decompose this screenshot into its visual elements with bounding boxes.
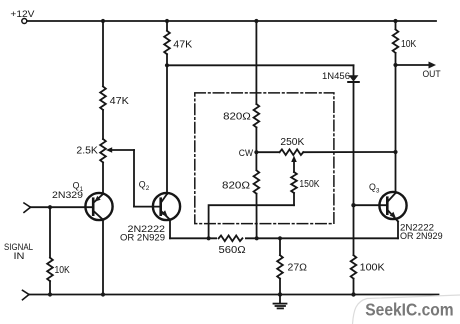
node junction rail-820 chain <box>254 19 258 23</box>
wire Q2 emitter down <box>169 220 171 239</box>
svg-text:27Ω: 27Ω <box>288 263 308 274</box>
watermark swoosh <box>353 295 460 324</box>
wire node down to Q3 collector <box>395 152 397 193</box>
resistor R2 10K <box>47 258 70 281</box>
label SIGNAL IN <box>4 242 33 261</box>
svg-text:Q: Q <box>73 180 80 190</box>
wire R10 to ground rail <box>279 279 281 295</box>
wire R9 bottom down to 560 line <box>256 194 258 239</box>
svg-text:560Ω: 560Ω <box>219 245 247 256</box>
wire R8 bottom to corner line <box>293 193 295 205</box>
svg-text:OUT: OUT <box>423 69 441 79</box>
transistor Q3 2N2222 <box>354 182 443 241</box>
svg-text:IN: IN <box>14 251 25 261</box>
node junction rail-Q1 collector <box>101 292 105 296</box>
wire CW to pot R7 <box>256 151 279 153</box>
node junction CW <box>239 148 259 158</box>
dashed trim box <box>195 93 334 224</box>
potentiometer 2.5K <box>76 139 134 162</box>
node junction OUT <box>393 63 397 67</box>
node junction Q2 collector <box>165 63 169 67</box>
resistor R4 10K <box>393 30 417 53</box>
wire input node down to R2 <box>49 207 51 257</box>
wire 27ohm node down <box>279 238 281 255</box>
wire top +12V rail <box>27 20 436 22</box>
wire collector node down to Q2 <box>166 65 168 194</box>
wire R2 to ground rail <box>49 281 51 294</box>
wire rail down to 820 R6 <box>255 21 257 104</box>
node junction rail-27ohm <box>278 292 282 296</box>
wire base node down to R11 <box>353 205 355 255</box>
svg-text:OR 2N929: OR 2N929 <box>120 232 165 242</box>
wire R4 to OUT node <box>395 53 397 65</box>
signal input terminal top chevron <box>24 203 31 212</box>
wire R1 to pot <box>102 110 104 139</box>
resistor R9 820ohm <box>222 170 259 193</box>
node junction 560 left <box>207 236 211 240</box>
node junction Q3 base <box>351 203 355 207</box>
resistor R1 47K <box>100 87 129 110</box>
resistor R11 100K <box>351 255 385 278</box>
svg-text:2N329: 2N329 <box>52 190 83 200</box>
wire bottom ground rail <box>29 294 439 296</box>
node junction collector-pot <box>393 150 397 154</box>
svg-text:CW: CW <box>239 148 254 158</box>
resistor R3 47K <box>164 31 193 54</box>
svg-text:820Ω: 820Ω <box>222 180 251 191</box>
resistor R6 820ohm <box>223 104 259 127</box>
wire R3 to collector node <box>166 54 168 65</box>
wire Q3 emitter down to 560 line <box>397 222 399 239</box>
diode D1 1N456 <box>322 65 359 82</box>
wire Q1 collector to ground rail <box>102 220 104 295</box>
wire CW down to 820 R9 <box>255 152 257 170</box>
wire rail to R1 <box>102 21 104 86</box>
svg-text:3: 3 <box>376 187 380 194</box>
node junction 27ohm top <box>278 236 282 240</box>
svg-text:100K: 100K <box>360 263 386 274</box>
node junction input-10K R2 <box>48 205 52 209</box>
svg-text:150K: 150K <box>299 179 319 190</box>
wire R6 to CW node <box>255 127 257 152</box>
wire emitter line y238 <box>170 237 398 239</box>
resistor R10 27ohm <box>277 255 307 278</box>
wire rail down to R4 <box>395 21 397 29</box>
wire diode cathode to Q3 base node <box>353 82 355 205</box>
svg-text:OR 2N929: OR 2N929 <box>400 231 443 241</box>
ground <box>274 295 287 309</box>
wire corner from 560-left up and right to 150K bottom <box>209 205 294 238</box>
svg-text:Q: Q <box>139 180 146 190</box>
transistor Q1 2N329 <box>30 180 113 220</box>
node junction rail-47K R1 <box>101 19 105 23</box>
wire collector node to diode corner <box>167 64 354 66</box>
svg-text:10K: 10K <box>55 265 71 276</box>
svg-text:SeekIC.com: SeekIC.com <box>365 299 453 319</box>
svg-text:250K: 250K <box>280 137 304 148</box>
wire pot wiper down to Q2 base <box>133 150 135 207</box>
wire rail to R3 <box>166 21 168 31</box>
resistor R8 150K <box>291 172 320 193</box>
wire pot bottom to Q1 emitter <box>102 162 104 194</box>
svg-text:820Ω: 820Ω <box>223 111 251 122</box>
svg-text:2: 2 <box>146 185 150 192</box>
transistor Q2 2N2222 <box>120 180 180 243</box>
node junction rail-47K R3 <box>165 19 169 23</box>
node junction rail-R11 <box>351 292 355 296</box>
potentiometer R7 250K <box>280 137 305 172</box>
svg-text:47K: 47K <box>173 40 193 51</box>
node junction rail-R2 <box>48 292 52 296</box>
svg-text:47K: 47K <box>110 96 130 107</box>
svg-text:2.5K: 2.5K <box>76 146 98 157</box>
svg-text:10K: 10K <box>401 39 417 50</box>
wire pot right to Q3 collector node <box>303 151 395 153</box>
node junction 560 right <box>255 236 259 240</box>
signal input terminal bottom chevron <box>23 290 30 299</box>
wire OUT node down to collector node <box>395 65 397 152</box>
svg-text:+12V: +12V <box>10 8 35 19</box>
+12V supply terminal <box>10 8 35 24</box>
OUT arrow <box>396 62 441 80</box>
wire R11 to ground rail <box>353 279 355 295</box>
svg-text:1N456: 1N456 <box>322 71 350 82</box>
resistor R5 560ohm <box>217 234 246 256</box>
node junction rail-10K R4 <box>393 19 397 23</box>
